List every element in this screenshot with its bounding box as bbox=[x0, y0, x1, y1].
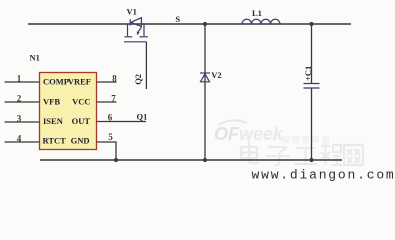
wire bottom ground rail bbox=[40, 159, 342, 161]
svg-text:5: 5 bbox=[108, 132, 113, 142]
svg-text:Q1: Q1 bbox=[137, 112, 148, 122]
svg-text:ISEN: ISEN bbox=[43, 116, 64, 126]
junction bottom rail / V2 bbox=[203, 158, 207, 162]
wire pin 3 stub bbox=[5, 121, 40, 123]
svg-text:8: 8 bbox=[112, 73, 117, 83]
junction bottom rail / C1 bbox=[309, 158, 313, 162]
svg-text:VREF: VREF bbox=[68, 77, 91, 87]
svg-text:N1: N1 bbox=[30, 53, 40, 63]
svg-text:Q2: Q2 bbox=[133, 74, 143, 85]
svg-text:GND: GND bbox=[71, 136, 90, 146]
svg-text:VCC: VCC bbox=[72, 97, 90, 107]
watermark big dianzi gongcheng wang characters bbox=[241, 141, 363, 166]
svg-text:L1: L1 bbox=[252, 8, 262, 18]
capacitor C1 bbox=[304, 84, 320, 89]
svg-text:OUT: OUT bbox=[72, 116, 91, 126]
svg-text:V2: V2 bbox=[211, 70, 221, 80]
svg-text:RTCT: RTCT bbox=[43, 136, 67, 146]
wire C1 branch vertical bottom bbox=[311, 89, 313, 161]
svg-text:COMP: COMP bbox=[43, 77, 69, 87]
wire pin 2 stub bbox=[5, 101, 40, 103]
子 bbox=[266, 147, 290, 166]
svg-text:VFB: VFB bbox=[43, 97, 60, 107]
wire V2 branch vertical bbox=[204, 24, 206, 160]
电 bbox=[241, 147, 257, 158]
wire pin 4 stub bbox=[5, 141, 40, 143]
svg-text:www.diangon.com: www.diangon.com bbox=[252, 168, 395, 183]
svg-text:7: 7 bbox=[111, 93, 116, 103]
程 bbox=[321, 143, 330, 165]
junction top rail / V2 bbox=[203, 22, 207, 26]
junction top rail / C1 bbox=[309, 22, 313, 26]
svg-text:2: 2 bbox=[17, 93, 22, 103]
svg-text:+C1: +C1 bbox=[303, 66, 313, 81]
svg-text:S: S bbox=[175, 14, 180, 24]
网 bbox=[344, 145, 363, 165]
工 bbox=[294, 148, 317, 164]
svg-text:3: 3 bbox=[17, 113, 22, 123]
diode V2 bbox=[200, 73, 210, 82]
svg-text:1: 1 bbox=[17, 73, 22, 83]
svg-text:6: 6 bbox=[108, 112, 113, 122]
watermark OFweek logo bbox=[214, 120, 329, 144]
wire gate of V1 going down bbox=[145, 42, 147, 89]
wire pin 5 stub and vertical to ground rail bbox=[97, 142, 117, 160]
wire pin 6 stub to net Q1 bbox=[97, 121, 147, 123]
wire pin 1 stub bbox=[5, 81, 40, 83]
transistor V1 (P-MOSFET with body diode) bbox=[124, 18, 148, 42]
svg-text:V1: V1 bbox=[127, 7, 137, 17]
junction bottom rail / pin5 bbox=[114, 158, 118, 162]
op-amp U1 : IC N1 box bbox=[40, 73, 97, 150]
svg-text:4: 4 bbox=[17, 133, 22, 143]
wire top rail from input to right end bbox=[28, 23, 351, 25]
wire C1 branch vertical top bbox=[311, 24, 313, 83]
wire pin 8 stub bbox=[97, 81, 117, 83]
wire pin 7 stub bbox=[97, 101, 117, 103]
inductor L1 bbox=[242, 19, 280, 24]
